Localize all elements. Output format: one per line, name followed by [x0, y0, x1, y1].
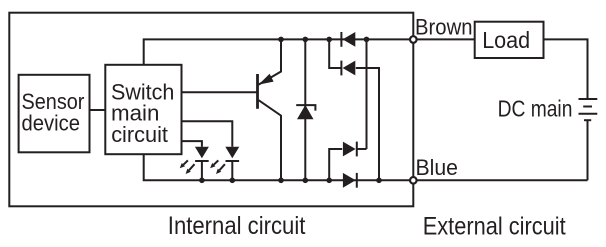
svg-text:DC main: DC main — [498, 96, 573, 122]
svg-text:Load: Load — [482, 27, 530, 53]
svg-text:circuit: circuit — [111, 122, 169, 147]
svg-text:device: device — [22, 111, 81, 136]
svg-text:Brown: Brown — [415, 14, 473, 39]
svg-text:Internal circuit: Internal circuit — [168, 212, 306, 240]
svg-text:External circuit: External circuit — [423, 212, 566, 240]
svg-text:Blue: Blue — [416, 155, 459, 180]
